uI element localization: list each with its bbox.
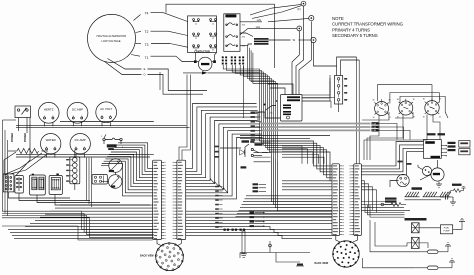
svg-text:(F): (F)	[297, 7, 300, 11]
svg-text:DC AMP: DC AMP	[72, 107, 83, 111]
svg-text:YDG/TAG ALTERNATOR: YDG/TAG ALTERNATOR	[96, 34, 126, 38]
svg-text:12: 12	[212, 50, 214, 52]
svg-text:DC AMP: DC AMP	[75, 138, 86, 142]
svg-text:4 B: 4 B	[242, 25, 246, 27]
svg-text:PUMP: PUMP	[443, 231, 450, 233]
svg-text:12: 12	[195, 38, 197, 40]
svg-text:POWER: POWER	[11, 133, 14, 142]
svg-text:LOW VOLTAGE: LOW VOLTAGE	[101, 39, 120, 43]
svg-text:FUEL: FUEL	[444, 227, 450, 229]
svg-text:L2N: L2N	[372, 127, 376, 129]
svg-text:L3N: L3N	[372, 130, 376, 132]
svg-text:T4: T4	[145, 12, 149, 16]
svg-text:12: 12	[212, 38, 214, 40]
svg-text:85: 85	[413, 99, 415, 101]
svg-text:86: 86	[397, 99, 399, 101]
svg-text:SECONDARY 5 TURNS: SECONDARY 5 TURNS	[332, 33, 378, 38]
svg-text:4 B: 4 B	[242, 36, 246, 38]
svg-text:BACK VIEW: BACK VIEW	[315, 262, 329, 265]
svg-text:POWER: POWER	[24, 133, 27, 142]
svg-text:E: E	[144, 67, 146, 71]
svg-text:30: 30	[373, 117, 375, 119]
svg-text:86: 86	[373, 100, 375, 102]
svg-text:86: 86	[423, 99, 425, 101]
svg-text:CURRENT TRANSFORMER WIRING: CURRENT TRANSFORMER WIRING	[332, 22, 404, 27]
svg-text:L1N: L1N	[372, 123, 376, 125]
svg-text:4 B: 4 B	[242, 46, 246, 48]
svg-text:NOTE: NOTE	[332, 16, 344, 21]
svg-text:T3: T3	[145, 43, 149, 47]
svg-text:30: 30	[423, 117, 425, 119]
svg-text:PRIMARY 4 TURNS: PRIMARY 4 TURNS	[332, 27, 370, 32]
svg-text:AC VOLT: AC VOLT	[100, 107, 112, 111]
svg-text:O: O	[143, 73, 145, 77]
svg-text:L1G: L1G	[256, 26, 261, 29]
svg-text:WATER: WATER	[46, 138, 56, 142]
svg-text:12: 12	[195, 24, 197, 26]
svg-text:HERTZ: HERTZ	[44, 107, 54, 111]
svg-text:BACK VIEW: BACK VIEW	[140, 254, 154, 257]
svg-text:CONTACTOR: CONTACTOR	[194, 50, 210, 53]
svg-text:L2G: L2G	[257, 19, 262, 22]
svg-text:(T): (T)	[270, 113, 273, 115]
svg-text:T2: T2	[145, 30, 149, 34]
svg-text:12: 12	[212, 24, 214, 26]
svg-text:87: 87	[439, 117, 441, 119]
svg-text:T1: T1	[145, 56, 149, 60]
